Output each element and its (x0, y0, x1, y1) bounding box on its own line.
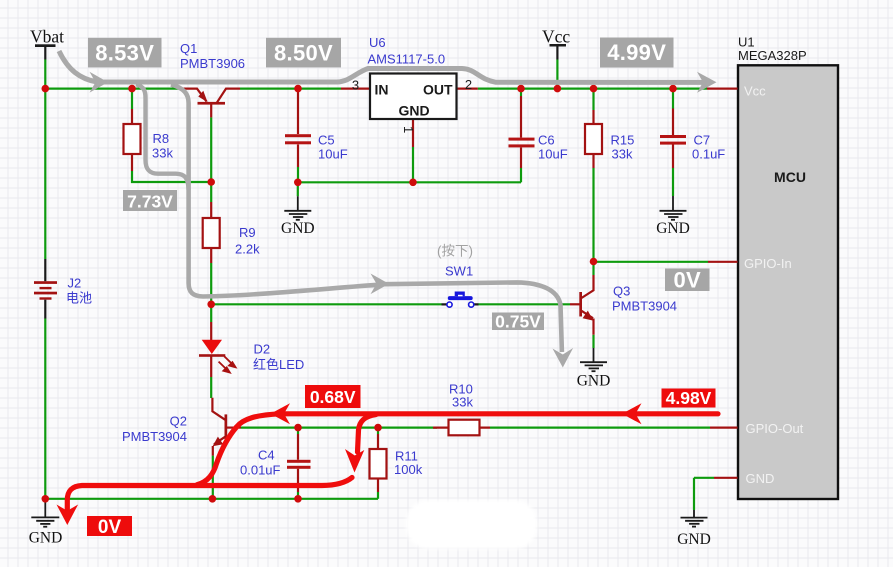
resistor R11 leads (377, 434, 379, 492)
voltage label 4.98V (red) (662, 388, 716, 408)
svg-text:PMBT3906: PMBT3906 (180, 56, 245, 71)
diode D2 leads (210, 322, 212, 377)
svg-text:Vcc: Vcc (542, 27, 570, 47)
svg-text:C6: C6 (538, 133, 555, 148)
svg-text:0.01uF: 0.01uF (240, 463, 281, 478)
svg-text:C7: C7 (694, 133, 711, 148)
wire C5 gnd rail (298, 181, 521, 183)
resistor R11 body (370, 449, 387, 479)
red arrowhead down through R11 (345, 449, 364, 473)
U6 pin number 3 (352, 78, 359, 93)
wire Q1 base down (210, 117, 212, 202)
wire battery to bottom rail (44, 319, 46, 499)
svg-text:R15: R15 (611, 133, 635, 148)
wire bottom rail (45, 498, 378, 500)
svg-text:4.98V: 4.98V (666, 388, 712, 408)
capacitor C4 leads (297, 434, 299, 492)
gray branch through R8 (136, 84, 189, 190)
wire C4 top (297, 428, 299, 434)
wire R9 bottom (210, 263, 212, 304)
resistor R10 leads (433, 427, 490, 429)
voltage label 0V (gray, GPIO-In) (665, 268, 710, 293)
transistor Q2 base bar (225, 414, 228, 440)
battery J2 plates (34, 281, 57, 299)
svg-text:GND: GND (746, 471, 775, 486)
wire R15 bottom to Q3 collector node (592, 168, 594, 262)
voltage label 4.99V (600, 38, 674, 68)
label SW1 (445, 264, 473, 279)
gray flow path main (Vbat to Vcc) (59, 51, 703, 352)
wire MCU GND pin (694, 478, 714, 510)
svg-text:GND: GND (281, 220, 315, 237)
gray arrowhead (after Vbat) (90, 72, 109, 93)
capacitor C6 plates (509, 138, 535, 148)
label C7 (692, 133, 725, 162)
capacitor C7 plates (660, 135, 686, 145)
capacitor C4 plates (287, 460, 311, 469)
MCU pin leads (707, 89, 738, 478)
transistor Q1 base bar (198, 102, 226, 105)
Vcc port symbol (550, 44, 567, 60)
label Q2 (122, 414, 187, 445)
svg-text:33k: 33k (152, 146, 173, 161)
wire LED cathode to Q2 (210, 377, 212, 398)
svg-text:D2: D2 (254, 342, 271, 357)
voltage label 7.73V (123, 190, 177, 211)
svg-text:MEGA328P: MEGA328P (738, 48, 807, 63)
wire Q2 base row (241, 427, 437, 429)
svg-text:Vcc: Vcc (744, 83, 766, 98)
LED D2 emission arrows (219, 356, 236, 372)
gray branch to SW1 and Q3 (171, 85, 562, 353)
wire C5 gnd stem (297, 182, 299, 196)
svg-text:2.2k: 2.2k (235, 242, 260, 257)
wire R10 to MCU GPIO-Out (490, 427, 710, 429)
svg-text:GPIO-In: GPIO-In (744, 256, 792, 271)
gray arrowhead (into MCU Vcc) (697, 72, 717, 93)
wire C7 bottom (672, 168, 674, 196)
svg-text:PMBT3904: PMBT3904 (612, 299, 677, 314)
gray arrowhead (down to Q3 gnd) (553, 348, 574, 368)
resistor R10 body (449, 420, 480, 436)
label Vbat (30, 27, 64, 47)
red flow path from GPIO-Out into Q2 base (67, 414, 718, 509)
label D2 (253, 342, 304, 373)
voltage label 8.50V (266, 38, 341, 68)
wire U6 pin1 (412, 147, 414, 182)
wire top rail mid (Q1 collector to U6 IN) (240, 87, 341, 89)
label Q1 (180, 41, 245, 71)
label (按下) (437, 244, 473, 259)
wire C5 bottom (297, 167, 299, 182)
red arrowhead 0.68V (pointing left) (271, 403, 291, 424)
wire LED anode (210, 304, 212, 322)
transistor Q3 emitter arrow (583, 311, 594, 321)
MCU U1 box (738, 65, 838, 499)
Vbat port symbol (35, 44, 56, 59)
U6 pin leads (341, 87, 370, 89)
label C6 (538, 133, 568, 162)
svg-text:PMBT3904: PMBT3904 (122, 429, 187, 444)
U6 pin number 1 (401, 126, 416, 133)
svg-text:Vbat: Vbat (30, 27, 64, 47)
transistor Q3 leads (570, 303, 581, 305)
LED D2 cathode bar (199, 354, 225, 357)
svg-text:GND: GND (677, 531, 711, 548)
U6 pin number 2 (465, 77, 472, 92)
wire C4 bottom (297, 492, 299, 499)
svg-text:8.50V: 8.50V (274, 40, 333, 65)
label GND (C7) (656, 220, 690, 237)
switch SW1 (442, 292, 479, 308)
label C5 (318, 133, 348, 162)
label U1 (738, 35, 807, 64)
label R10 (449, 382, 473, 410)
label R11 (394, 449, 423, 478)
svg-text:0V: 0V (98, 517, 122, 538)
wire left column to battery (44, 89, 46, 259)
svg-text:(按下): (按下) (437, 244, 473, 259)
red arrowhead down to GND 0V (57, 505, 79, 526)
voltage label 8.53V (88, 38, 162, 68)
MCU pin texts (744, 83, 806, 486)
wire top rail right (U6 OUT to MCU Vcc) (478, 87, 707, 89)
wire C6 bottom (520, 168, 522, 182)
svg-text:SW1: SW1 (445, 264, 473, 279)
svg-text:Q3: Q3 (613, 284, 630, 299)
label C4 (240, 448, 281, 478)
svg-text:2: 2 (465, 77, 472, 92)
label GND (bottom-left) (29, 530, 63, 547)
svg-text:Q1: Q1 (180, 41, 197, 56)
label R8 (152, 131, 173, 161)
red flow path bottom to GND (67, 478, 352, 510)
red flow branch down through R11 (358, 415, 377, 453)
svg-text:0.1uF: 0.1uF (692, 147, 725, 162)
resistor R8 leads (131, 109, 133, 171)
svg-text:红色LED: 红色LED (253, 357, 304, 372)
resistor R15 leads (592, 110, 594, 168)
svg-text:0.68V: 0.68V (310, 387, 356, 407)
label GND (MCU) (677, 531, 711, 548)
svg-text:GPIO-Out: GPIO-Out (746, 421, 804, 436)
capacitor C5 leads (297, 90, 299, 167)
ground symbol (bottom-left) (31, 499, 59, 527)
svg-text:C4: C4 (258, 448, 275, 463)
ground symbol (MCU) (681, 510, 708, 527)
svg-text:R9: R9 (239, 225, 256, 240)
wire R15 top (592, 89, 594, 110)
resistor R8 body (124, 124, 141, 154)
wire Vcc stem (556, 60, 558, 89)
svg-text:4.99V: 4.99V (607, 40, 666, 65)
capacitor C5 plates (285, 134, 311, 144)
resistor R9 body (203, 218, 220, 248)
svg-text:U6: U6 (369, 35, 386, 50)
label GND (Q3) (577, 373, 611, 390)
svg-text:10uF: 10uF (538, 147, 568, 162)
erased watermark blob (406, 500, 537, 549)
transistor Q2 emitter arrow (213, 437, 224, 447)
svg-text:MCU: MCU (774, 169, 806, 185)
svg-text:7.73V: 7.73V (127, 191, 173, 211)
svg-text:0.75V: 0.75V (495, 311, 541, 331)
svg-text:GND: GND (29, 530, 63, 547)
svg-text:电池: 电池 (66, 291, 92, 306)
wire Q3 emitter to gnd (592, 335, 594, 348)
svg-text:OUT: OUT (423, 82, 453, 98)
label R15 (611, 133, 635, 162)
wire Q3 collector (592, 262, 594, 276)
voltage label 0.75V (492, 311, 544, 331)
svg-text:R8: R8 (153, 131, 170, 146)
U6 pin texts (375, 82, 453, 119)
wire R8 bottom to 7.73V node (132, 171, 211, 182)
svg-text:100k: 100k (394, 462, 423, 477)
wire R8 top (131, 89, 133, 109)
voltage label 0V (red, bottom) (87, 516, 132, 538)
wire top rail left (45, 87, 183, 89)
wire R11 top (377, 428, 379, 434)
wire C7 top (672, 89, 674, 109)
ground symbol (Q3) (580, 348, 607, 371)
svg-text:33k: 33k (612, 147, 633, 162)
IC U6 box (370, 74, 457, 120)
svg-text:10uF: 10uF (318, 147, 348, 162)
svg-text:IN: IN (375, 82, 389, 98)
label Vcc (542, 27, 570, 47)
ground symbol (C7) (660, 196, 687, 220)
wire R11 bottom (377, 492, 379, 499)
wire Q2 emitter down (212, 456, 214, 499)
wire C6 top (520, 89, 522, 96)
label GND (C5) (281, 220, 315, 237)
transistor Q2 leads (212, 398, 225, 420)
svg-text:0V: 0V (673, 268, 701, 293)
svg-text:J2: J2 (68, 276, 82, 291)
svg-text:GND: GND (656, 220, 690, 237)
LED D2 triangle (202, 340, 222, 354)
red arrowhead 4.98V (pointing left) (622, 403, 642, 424)
svg-text:3: 3 (352, 78, 359, 93)
svg-text:8.53V: 8.53V (95, 40, 154, 65)
svg-text:C5: C5 (318, 133, 335, 148)
svg-text:33k: 33k (452, 395, 473, 410)
transistor Q3 base bar (579, 292, 582, 317)
svg-text:GND: GND (577, 373, 611, 390)
svg-text:GND: GND (398, 103, 429, 119)
wire LED row to SW1 (211, 303, 441, 305)
resistor R15 body (585, 124, 602, 154)
label Q3 (612, 284, 677, 314)
transistor Q1 leads (183, 89, 207, 102)
label J2 (66, 276, 92, 306)
resistor R9 leads (210, 202, 212, 263)
transistor Q1 emitter arrow (198, 91, 207, 103)
svg-text:AMS1117-5.0: AMS1117-5.0 (368, 52, 446, 67)
wire GPIO-In row (594, 261, 709, 263)
wire Vbat stem (44, 60, 46, 89)
battery J2 leads (44, 259, 46, 319)
label U6 (368, 35, 446, 67)
capacitor C6 leads (520, 96, 522, 168)
wire SW1 to Q3 base (479, 303, 571, 305)
voltage label 0.68V (red) (305, 385, 361, 408)
label R9 (235, 225, 260, 257)
gray arrowhead (SW1 row) (371, 274, 390, 295)
svg-text:1: 1 (401, 126, 416, 133)
ground symbol (C5) (284, 196, 311, 220)
capacitor C7 leads (672, 109, 674, 169)
svg-text:Q2: Q2 (170, 414, 187, 429)
